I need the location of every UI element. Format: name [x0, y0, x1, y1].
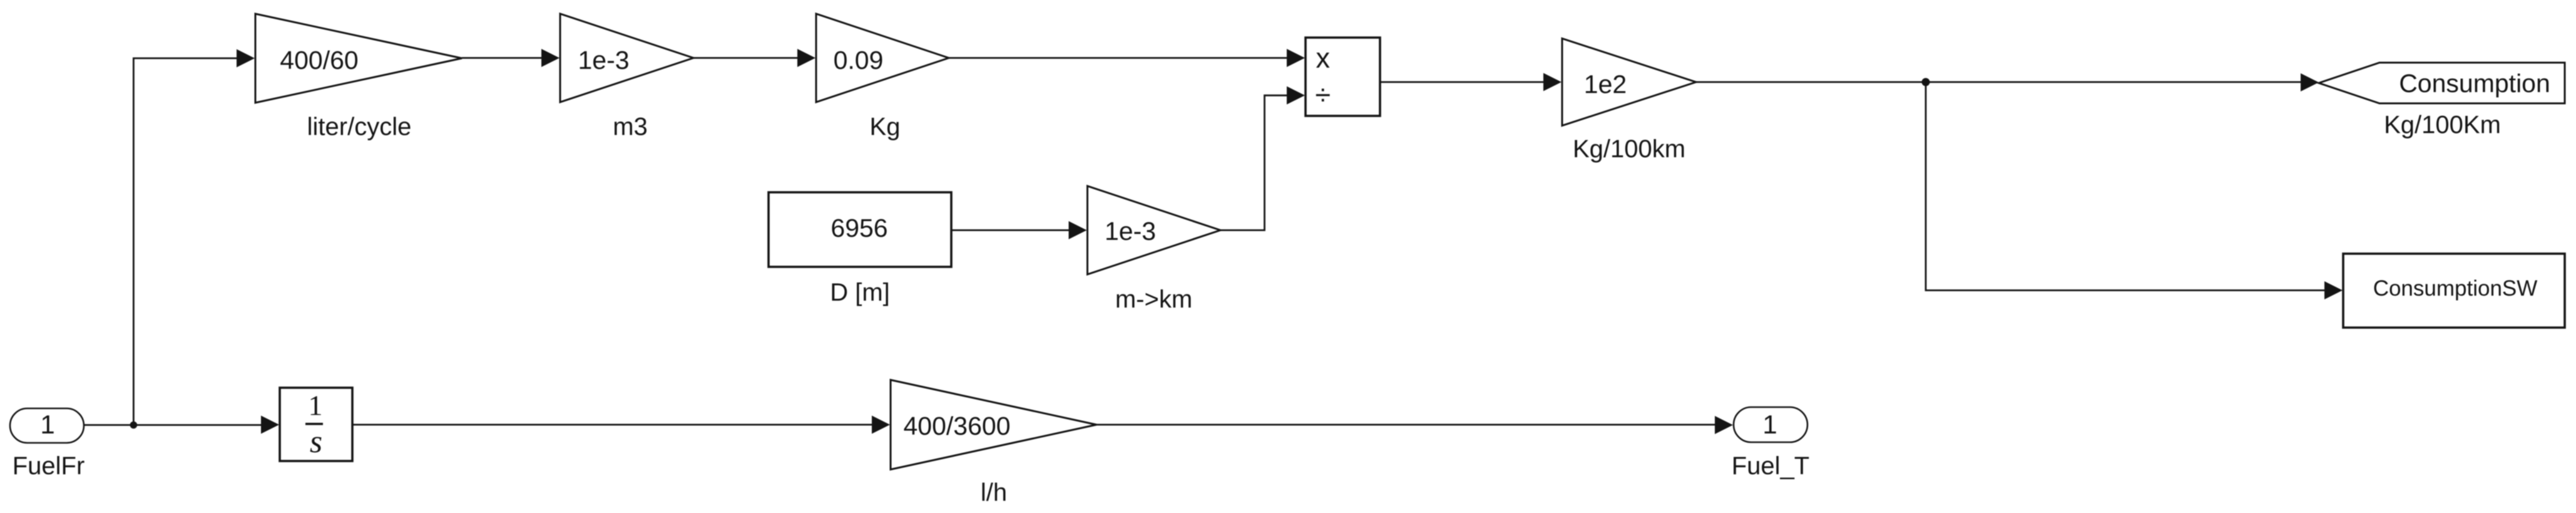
arrowhead into gain 1e-3	[541, 49, 560, 67]
svg-text:m->km: m->km	[1115, 286, 1192, 313]
svg-text:ConsumptionSW: ConsumptionSW	[2373, 276, 2538, 301]
arrowhead into gain m->km	[1069, 221, 1087, 239]
wire gain 400/60 to gain 1e-3	[462, 57, 544, 59]
gain 400/3600 l/h	[891, 380, 1096, 470]
gain 400/60 liter/cycle	[255, 14, 462, 103]
arrowhead into goto tag	[2301, 73, 2319, 91]
svg-text:Kg/100Km: Kg/100Km	[2384, 111, 2501, 139]
wire gain 1e2 to goto tag	[1696, 81, 2303, 83]
wire constant 6956 to gain m->km	[951, 229, 1071, 231]
arrowhead into gain 400/60	[237, 49, 255, 68]
svg-text:1e2: 1e2	[1584, 70, 1627, 99]
svg-text:1: 1	[1762, 410, 1777, 439]
svg-text:1: 1	[309, 390, 323, 422]
arrowhead into ConsumptionSW	[2324, 281, 2343, 299]
gain 1e2 Kg/100km	[1562, 39, 1696, 126]
arrowhead into gain 400/3600	[872, 416, 890, 434]
wire product to gain 1e2	[1380, 81, 1546, 83]
svg-text:1e-3: 1e-3	[1105, 217, 1156, 246]
junction dot at inport branch	[130, 422, 138, 429]
svg-text:1: 1	[40, 410, 54, 439]
svg-text:x: x	[1316, 42, 1330, 74]
product block	[1306, 38, 1380, 116]
svg-text:400/60: 400/60	[280, 46, 358, 75]
svg-text:400/3600: 400/3600	[903, 412, 1010, 440]
ConsumptionSW block	[2343, 254, 2565, 328]
wire branch up from junction	[133, 58, 239, 425]
svg-text:0.09: 0.09	[834, 46, 884, 75]
wire gain m->km to product divide port	[1220, 95, 1290, 230]
integrator fraction bar	[305, 423, 323, 425]
wire gain 0.09 to product	[949, 57, 1290, 59]
junction dot before goto tag	[1922, 78, 1930, 86]
svg-text:1e-3: 1e-3	[578, 46, 629, 75]
svg-text:Fuel_T: Fuel_T	[1732, 452, 1810, 480]
svg-text:l/h: l/h	[981, 479, 1007, 507]
gain 1e-3 m3	[560, 14, 693, 102]
svg-text:6956: 6956	[831, 214, 887, 242]
wire inport to integrator	[84, 424, 263, 426]
wire gain 400/3600 to outport	[1096, 424, 1717, 426]
goto tag Consumption	[2319, 63, 2565, 103]
integrator block	[280, 388, 352, 461]
svg-text:m3: m3	[613, 113, 648, 141]
arrowhead into integrator	[261, 416, 279, 434]
arrowhead into product divide port	[1287, 86, 1305, 105]
arrowhead into gain 0.09	[797, 49, 815, 67]
svg-text:liter/cycle: liter/cycle	[307, 113, 412, 141]
svg-text:D [m]: D [m]	[830, 279, 890, 306]
inport 1 oval	[10, 408, 84, 443]
constant 6956	[769, 192, 951, 267]
svg-text:Kg: Kg	[870, 113, 901, 141]
wire integrator to gain 400/3600	[352, 424, 874, 426]
wire gain 1e-3 to gain 0.09	[693, 57, 800, 59]
gain 1e-3 m->km	[1088, 186, 1221, 274]
svg-text:FuelFr: FuelFr	[13, 452, 85, 480]
wire branch down to ConsumptionSW	[1926, 82, 2328, 291]
arrowhead into outport	[1715, 416, 1733, 434]
arrowhead into gain 1e2	[1543, 73, 1561, 91]
svg-text:÷: ÷	[1315, 79, 1331, 111]
arrowhead into product x port	[1287, 49, 1305, 67]
svg-text:s: s	[310, 424, 322, 460]
svg-text:Kg/100km: Kg/100km	[1573, 135, 1685, 163]
svg-text:Consumption: Consumption	[2399, 69, 2550, 98]
gain 0.09 Kg	[816, 14, 949, 102]
outport 1 oval	[1734, 407, 1807, 442]
